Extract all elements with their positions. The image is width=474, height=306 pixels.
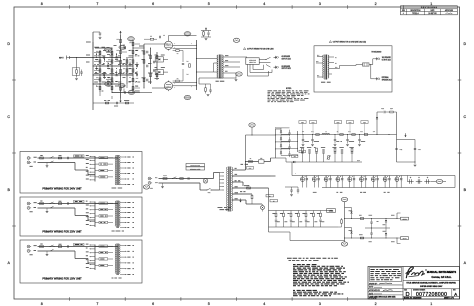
capacitor PI [154,61,155,63]
svg-text:SUPER-SONIC HEAD 100V: SUPER-SONIC HEAD 100V [420,285,443,288]
junctions amp extra [96,48,151,89]
resistor amp [111,69,113,72]
wire LV outputs [396,213,398,219]
capacitor bias [341,154,343,163]
value label [336,141,342,143]
value label [349,141,354,143]
boxed label [74,200,85,202]
tube V5 label ellipse [184,32,191,36]
fuse F1 [40,157,44,159]
wire jack fanout [259,59,266,61]
svg-text:WHT: WHT [155,182,158,184]
junction [370,217,373,220]
connector J10 [363,63,370,66]
fuse F1 [40,203,44,205]
resistor heater [313,211,315,214]
boxed label [74,243,85,245]
svg-text:7: 7 [96,302,98,306]
supply arrow up [119,31,121,35]
svg-text:4: 4 [263,302,265,306]
resistor heater [290,211,292,214]
fuse F1 main [163,178,167,180]
boxed label +15V [401,217,409,220]
wire tap [91,224,96,226]
resistor PI [156,73,158,76]
svg-text:1: 1 [430,302,432,306]
svg-text:CB1: CB1 [260,158,263,160]
switch SW1 [50,245,54,247]
junction [133,92,134,93]
wire feedback loop inner [248,64,269,76]
junction [112,84,113,85]
resistor amp [132,42,134,45]
wire tap [91,175,96,177]
capacitor bias [323,154,325,163]
wire AC neutral [38,250,76,252]
wire amp horizontal [112,92,140,94]
wire to T1 primary [213,173,215,179]
regulator CR40 [385,220,387,222]
wire bus top stub [93,31,100,33]
test point TP41 [341,242,347,246]
lamp pilot [203,179,208,184]
border tick [291,5,293,9]
tube V6 label ellipse [184,95,191,99]
capacitor amp [125,91,126,93]
ground input [75,79,78,80]
capacitor line filter [68,245,69,247]
wire T2 secondary taps [223,56,247,58]
boxed voltage label [334,121,341,124]
wire tap [91,171,96,173]
capacitor amp [116,74,117,76]
wire rung [276,141,290,143]
notes paragraph [293,265,349,286]
resistor amp [111,51,113,54]
resistor amp [99,78,101,81]
resistor amp [99,51,101,54]
wire tap arrow [233,181,234,182]
junction [312,134,313,135]
switch SW1b [50,206,54,208]
rectifier ladder rails [275,129,277,158]
svg-text:R105: R105 [390,108,393,110]
amp micro labels [86,42,165,91]
switch SW2 standby [207,188,211,190]
transformer T1 primary 240V [116,155,118,185]
title block divider [402,267,404,300]
jack 16 ohm [375,57,380,60]
wire B+ rail [298,134,397,136]
diode CR [280,152,282,154]
wire LV mid [365,227,390,229]
wire amp horizontal [93,74,133,76]
junction [100,66,101,67]
ground chassis [46,211,49,212]
wire tap [91,179,96,181]
wire tap [91,264,96,266]
wire tap [91,217,96,219]
wire filter rail bottom [322,187,455,189]
svg-text:3: 3 [319,302,321,306]
svg-text:100K: 100K [108,86,111,88]
wire tap T1 [220,172,223,174]
wire tap arrow [233,193,234,194]
junction [112,57,113,58]
transformer T2A core [324,55,326,80]
wire tube cathode connections [173,48,197,50]
svg-text:SHEET 1 OF 1: SHEET 1 OF 1 [444,297,454,299]
junction [112,48,113,49]
resistor amp [126,69,128,72]
Fender script logo [406,267,413,278]
svg-text:100K: 100K [96,51,99,53]
capacitor line filter [68,157,69,159]
transformer T1 primary 100V [116,244,118,276]
wire input drop [76,58,78,70]
capacitor C52 [395,149,397,150]
capacitor filter stub [347,135,349,140]
junction [303,134,304,135]
junction [133,75,134,76]
resistor dropper [316,134,319,136]
capacitor filter can [312,176,317,183]
junction [112,75,113,76]
boxed label 6.3VAC [327,209,336,213]
label strip under transformer [112,230,125,232]
border tick [69,5,71,9]
resistor R130 [360,218,363,220]
svg-text:PRIMARY WIRING FOR 230V UN: PRIMARY WIRING FOR 230V UNIT [42,230,82,233]
jack external speaker [375,77,380,80]
capacitor filter can [336,176,341,183]
wire input [70,57,94,59]
wire amp horizontal [95,47,112,49]
capacitor PI [147,79,148,81]
value label [304,141,309,143]
screen supply branch [376,112,378,135]
svg-text:10-SEPT-05: 10-SEPT-05 [428,13,436,15]
border tick [12,79,16,81]
svg-text:-15VDC: -15VDC [402,238,406,240]
wire heater jog [245,200,247,204]
wire vertical PI [150,48,152,84]
wire jog [74,163,76,171]
connector boxed labels [266,195,274,197]
supply arrow down [119,99,121,103]
junction [120,57,121,58]
junction [343,217,346,220]
boxed voltage label [361,121,368,124]
svg-text:470V: 470V [249,168,252,170]
border tick [180,5,182,9]
resistor MOV main [180,178,183,180]
label strip under transformer [112,187,123,189]
test point TP1 [233,38,239,42]
wire tap [91,221,96,223]
wire LV bottom rail [345,237,398,239]
svg-text:100K: 100K [108,59,111,61]
wire AC hot [38,157,119,159]
wire amp vertical [126,58,128,85]
junction [343,237,346,240]
svg-text:D: D [405,292,409,298]
capacitor filter small [400,176,402,183]
resistor PI [156,55,158,58]
junction [112,66,113,67]
capacitor filter small [317,176,319,183]
resistor R120 [341,220,343,223]
boxed voltage label [299,121,306,124]
switch SW1 [50,202,54,204]
wire TP20 stub [251,127,253,135]
wire heater bottom bus [269,226,339,228]
capacitor line filter [68,202,69,204]
bias pot [328,156,330,159]
junction [93,57,94,58]
regulator CR41 [385,233,387,235]
bias diode [293,161,295,163]
wire bias rail [286,161,362,163]
resistor PI [143,60,145,63]
wire T2A right taps [329,56,334,58]
resistor dropper [340,134,343,136]
svg-text:B+2: B+2 [311,131,313,133]
svg-text:100K: 100K [129,42,132,44]
resistor dropper [364,134,367,136]
svg-text:0077208000: 0077208000 [416,292,447,298]
svg-text:100K: 100K [96,77,99,79]
diode CR31 [350,232,352,234]
power tube V5 [164,40,172,51]
title block rule [403,280,460,282]
svg-text:5: 5 [208,2,210,6]
capacitor amp [116,56,117,58]
svg-text:8: 8 [41,2,43,6]
svg-text:5: 5 [208,302,210,306]
resistor dropper [352,134,355,136]
wire tap [91,267,96,269]
capacitor filter stub [359,135,361,140]
wire screen resistors [176,50,179,52]
ground chassis [46,254,49,255]
svg-text:7: 7 [96,2,98,6]
label T1 [218,207,232,209]
value label [314,141,319,143]
wire feedback loop outer [250,64,272,72]
resistor R131 [360,237,363,239]
wire AC hot [38,246,119,248]
capacitor amp [104,56,105,58]
capacitor PI [154,69,155,71]
capacitor amp [137,74,138,76]
diode CR [280,131,282,133]
boxed wire labels [99,245,108,247]
capacitor filter small [365,176,367,183]
border tick [402,5,404,9]
wire tap arrow [233,169,234,170]
junction [93,66,94,67]
wire tap [91,256,96,258]
svg-text:8: 8 [41,302,43,306]
transformer T2 secondary winding [222,55,223,78]
junction [100,75,101,76]
svg-text:BRN: BRN [316,61,319,63]
notes paragraph 2 [293,290,343,295]
junction [377,134,378,135]
node taps column [94,202,96,228]
border tick [12,152,16,154]
wire heater top bus [273,210,334,212]
resistor heater [320,211,322,214]
wire amp vertical [132,40,134,93]
wire amp horizontal [93,83,121,85]
svg-text:6: 6 [152,2,154,6]
impedance switch S3 [246,58,259,65]
capacitor filter can [348,176,353,183]
junction [335,134,336,135]
svg-text:B+3: B+3 [348,131,350,133]
node taps column [94,156,96,182]
svg-text:CR20: CR20 [381,108,384,110]
svg-text:SELECT SW: SELECT SW [249,62,256,64]
junction [120,66,121,67]
resistor amp [111,60,113,63]
standby sub-network [396,112,398,162]
relay K1 [155,57,163,62]
wire to power tubes top [144,43,168,45]
resistor amp [120,39,122,42]
svg-text:+C52: +C52 [399,149,402,151]
wire rung [276,127,290,129]
wire T2 primary connections [214,58,218,60]
wire tap T1 [220,179,223,181]
capacitor filter small [376,176,378,183]
svg-text:D: D [463,42,466,46]
arrow heater supply [239,199,241,203]
capacitor doubler [288,147,290,148]
wire AC neutral [38,162,76,164]
boxed label [74,155,85,157]
svg-text:1K: 1K [337,131,339,133]
border tick [347,5,349,9]
wire tap arrow [233,199,234,200]
svg-text:100K: 100K [129,59,132,61]
label strip under transformer [112,277,122,279]
capacitor C91 [297,190,299,191]
capacitor bypass [424,181,430,183]
svg-text:100K: 100K [117,39,120,41]
svg-text:DESCRIPTION: DESCRIPTION [410,10,420,12]
capacitor bias [351,154,353,163]
wire tap [91,213,96,215]
bias boxed labels [292,155,298,158]
svg-text:BLU: BLU [317,55,319,57]
transformer T1 primary 230V [116,201,118,229]
tube V2B label [128,90,135,94]
boxed label 470V [247,167,254,170]
capacitor C60 [188,177,189,179]
wire LV top rail [345,218,398,220]
capacitor filter can [395,176,400,183]
wire tap [91,205,96,207]
title block size/dwg headers [404,289,456,297]
warning 16 ohm output wiring [329,41,331,43]
capacitor filter stub [334,135,336,140]
svg-text:100K: 100K [136,78,139,80]
svg-text:-52V: -52V [293,156,296,158]
label T2 [216,80,225,82]
wire to 16ohm jack [372,59,374,65]
switch SW1 main [173,177,177,179]
capacitor PI [147,51,148,53]
svg-text:C: C [7,115,10,119]
wire tap arrow [233,175,234,176]
capacitor filter can [324,176,329,183]
heater component labels [272,214,324,222]
resistor MOV [58,246,61,248]
resistor amp [126,60,128,63]
AC plug P1 230V [27,202,31,209]
border tick [236,5,238,9]
resistor heater [305,211,307,214]
capacitor bias [309,154,311,163]
svg-text:4.7K: 4.7K [360,131,363,133]
capacitor amp [108,65,109,67]
junction [350,237,353,240]
wire tap [91,201,96,203]
capacitor C90 [290,190,292,191]
svg-text:2: 2 [375,302,377,306]
junction [350,217,353,220]
red label texts [235,167,237,169]
wire tap [91,163,96,165]
svg-text:3: 3 [319,2,321,6]
capacitor filter small [306,176,308,183]
wire to ext jack [370,65,372,79]
capacitor doubler [288,140,290,141]
svg-text:PRIMARY WIRING FOR 240V UN: PRIMARY WIRING FOR 240V UNIT [42,187,82,190]
transformer T2 output core [218,55,220,79]
boxed wire labels [99,202,108,204]
wire tap arrow [233,187,234,188]
svg-text:+15VDC: +15VDC [402,218,407,220]
label T2A [321,81,331,83]
capacitor filter can [360,176,365,183]
AC plug P1 100V [27,245,31,252]
notes list [268,88,310,102]
svg-text:SW2: SW2 [208,192,211,194]
note output wiring 4/8 ohm [243,48,245,50]
junction [385,217,388,220]
primary wiring box 240V [20,152,142,194]
junction [347,134,348,135]
svg-text:MODEL NO: 2162000000: MODEL NO: 2162000000 [404,297,421,299]
resistor amp [120,69,122,72]
boxed voltage label [309,121,316,124]
junction [389,134,390,135]
tube V3A label [119,45,126,49]
capacitor filter stub [302,135,304,140]
bias labels [300,147,354,149]
svg-text:8Ω: 8Ω [335,62,337,64]
fuse F3 [247,187,251,189]
svg-text:61257 NONE: 61257 NONE [369,298,377,300]
capacitor PI [147,65,148,67]
svg-text:0051036000 CORD: 0051036000 CORD [190,168,201,170]
resistor PI [143,51,145,54]
title block bottom row [403,296,460,299]
